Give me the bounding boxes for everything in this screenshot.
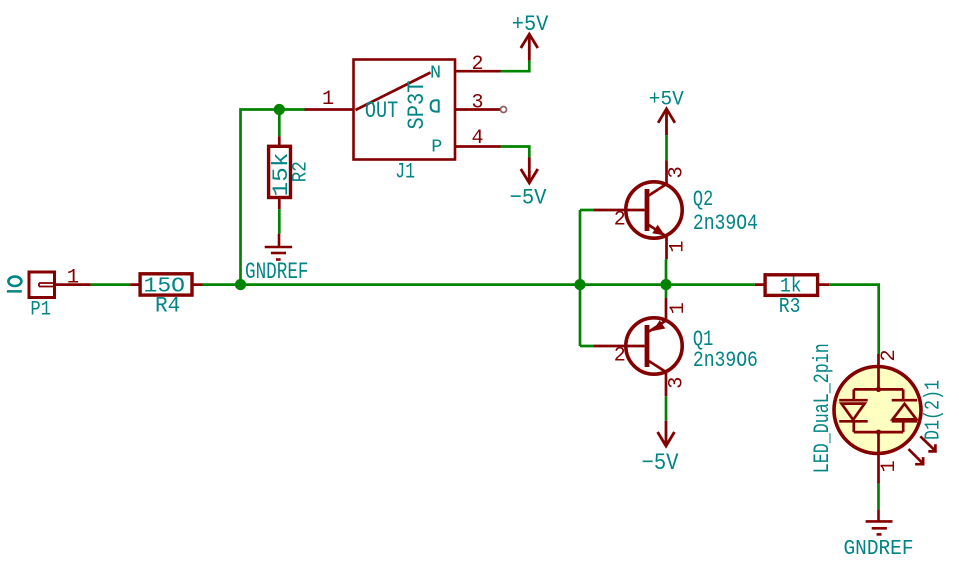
wire R3 to LED: [829, 285, 879, 354]
junction main/GNDREF branch: [235, 279, 246, 290]
wire D1 to ground: [877, 484, 880, 510]
ground symbol below R2: [265, 234, 292, 260]
LED D1 circle: [834, 367, 921, 454]
svg-text:R3: R3: [779, 295, 801, 319]
svg-text:4: 4: [472, 127, 484, 150]
junction R2 branch: [274, 104, 285, 115]
svg-text:GNDREF: GNDREF: [245, 259, 309, 285]
ground symbol GNDREF (bottom): [866, 509, 893, 534]
wire Q1 emitter to output node: [665, 285, 668, 298]
svg-text:1: 1: [67, 267, 79, 290]
svg-text:3: 3: [472, 92, 484, 115]
switch diagonal: [356, 73, 431, 111]
wire base stub Q1: [580, 345, 593, 348]
svg-text:3: 3: [665, 377, 688, 389]
svg-text:R2: R2: [290, 161, 313, 182]
wire pin2 to +5V: [501, 61, 530, 72]
LED inner bottom rail: [854, 421, 903, 453]
wire junction up to J1 pin1: [241, 110, 305, 285]
resistor R2: [278, 136, 281, 209]
connector P1: [29, 272, 55, 298]
resistor R3: [755, 283, 829, 286]
pin 1 of P1: [55, 283, 91, 286]
svg-text:LED_DuaL_2pin: LED_DuaL_2pin: [810, 343, 835, 473]
svg-text:2: 2: [614, 345, 626, 368]
pin 3 of J1 (unconnected): [455, 108, 501, 111]
wire Q2 collector to +5V: [665, 135, 668, 160]
wire R4 to junction to transistors and R3: [203, 283, 755, 286]
svg-text:R4: R4: [155, 294, 180, 319]
svg-text:OUT: OUT: [365, 98, 398, 124]
svg-text:3: 3: [666, 166, 689, 178]
wire pin4 to -5V: [501, 147, 530, 158]
svg-text:Q2: Q2: [693, 186, 713, 212]
light arrows of D1: [909, 436, 937, 464]
svg-text:1: 1: [666, 240, 689, 252]
switch J1 box: [354, 60, 456, 160]
pin 1 of D1: [877, 454, 880, 484]
svg-text:1: 1: [322, 88, 334, 111]
pin 1 of J1: [305, 108, 354, 111]
svg-text:2: 2: [878, 349, 901, 361]
-5V power symbol (Q1): [658, 421, 675, 446]
svg-text:−5V: −5V: [510, 185, 547, 211]
wire base stub Q2: [580, 209, 593, 212]
wire connecting Q1 Q2 bases: [579, 210, 582, 346]
wire junction to R2: [278, 114, 281, 136]
svg-text:1: 1: [667, 302, 690, 314]
svg-text:N: N: [430, 62, 441, 83]
svg-text:SP3T: SP3T: [404, 81, 430, 130]
svg-text:2: 2: [614, 209, 626, 232]
svg-text:−5V: −5V: [642, 450, 679, 476]
pin 2 of D1: [877, 354, 880, 367]
node bottom: [876, 430, 881, 435]
+5V power symbol (Q2): [658, 109, 675, 135]
svg-text:P: P: [431, 136, 442, 157]
svg-text:GNDREF: GNDREF: [844, 537, 914, 561]
label IO (rotated): [8, 277, 21, 286]
svg-text:2n39O6: 2n39O6: [693, 347, 758, 373]
transistor Q1: [593, 298, 682, 396]
svg-text:2n39O4: 2n39O4: [693, 210, 758, 236]
diode left (pointing down): [839, 400, 868, 421]
junction bases branch: [574, 279, 585, 290]
wire P1 to R4: [91, 283, 131, 286]
+5V power symbol (J1): [521, 34, 538, 60]
svg-text:+5V: +5V: [649, 89, 684, 112]
node top: [876, 387, 881, 392]
transistor Q2: [593, 160, 682, 259]
LED inner top rail: [854, 367, 903, 401]
wire Q2 emitter to output node: [665, 259, 668, 284]
wire Q1 collector to -5V: [665, 396, 668, 420]
pin 4 of J1: [455, 145, 501, 148]
svg-text:1: 1: [878, 460, 901, 472]
svg-text:2: 2: [472, 53, 484, 76]
-5V power symbol (J1): [521, 158, 538, 183]
pin 2 of J1: [455, 70, 501, 73]
svg-text:J1: J1: [395, 159, 415, 185]
resistor R4: [130, 283, 202, 286]
pin name O (flat-right glyph): [431, 100, 439, 111]
svg-text:D1(2)1: D1(2)1: [923, 380, 946, 440]
wire R2 to ground: [278, 209, 281, 233]
junction output node: [660, 279, 671, 290]
diode right (pointing up): [892, 400, 917, 421]
svg-text:+5V: +5V: [512, 12, 549, 37]
svg-text:P1: P1: [30, 299, 51, 322]
